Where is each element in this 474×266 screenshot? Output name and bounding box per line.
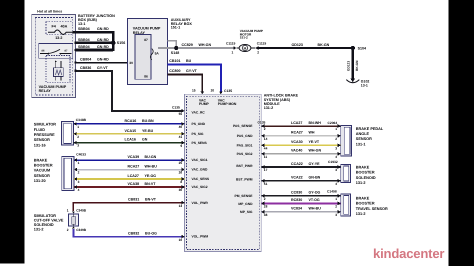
svg-text:9: 9	[180, 144, 182, 148]
svg-text:131-2: 131-2	[356, 212, 366, 216]
svg-text:10: 10	[179, 238, 183, 242]
svg-text:S104: S104	[358, 46, 366, 50]
svg-text:GY-VT: GY-VT	[97, 66, 109, 70]
svg-text:BU-OG: BU-OG	[145, 231, 157, 235]
svg-text:PAS_SIG1: PAS_SIG1	[237, 144, 253, 148]
svg-text:PUMP MON: PUMP MON	[218, 102, 237, 106]
svg-text:RCA27: RCA27	[128, 165, 140, 169]
svg-text:13: 13	[179, 204, 183, 208]
ABS module outer	[185, 94, 262, 251]
vacuum pump motor M	[236, 45, 255, 52]
vacuum pump relay box (aux)	[127, 19, 167, 85]
svg-text:BRAKE: BRAKE	[34, 158, 48, 162]
svg-text:SENSOR: SENSOR	[34, 174, 50, 178]
svg-text:C1119: C1119	[226, 42, 236, 46]
svg-text:PAS_SIG2: PAS_SIG2	[237, 152, 253, 156]
svg-text:C349B: C349B	[76, 209, 87, 213]
wire SBB04 GN-RD (fuse output)	[73, 31, 114, 34]
svg-text:SIMULATOR: SIMULATOR	[34, 123, 56, 127]
svg-text:BK-GN: BK-GN	[318, 43, 330, 47]
connector C1119 pin 2	[255, 46, 258, 50]
svg-text:RCA27: RCA27	[291, 131, 303, 135]
simulator fluid pressure sensor label	[34, 123, 56, 148]
label VACUUM PUMP RELAY (BJB)	[39, 85, 67, 93]
svg-text:S148: S148	[171, 51, 179, 55]
wire LCA27 YE-OG	[74, 178, 185, 180]
splice S104	[351, 46, 355, 50]
svg-text:ANGLE: ANGLE	[356, 132, 370, 136]
wire CB101 BU	[168, 64, 221, 92]
module header VAC PUMP	[199, 99, 210, 106]
svg-text:2: 2	[335, 204, 337, 208]
svg-text:VT-OG: VT-OG	[309, 198, 320, 202]
svg-text:RELAY: RELAY	[39, 89, 52, 93]
svg-text:C2064: C2064	[328, 121, 338, 125]
svg-text:VCA15: VCA15	[125, 129, 137, 133]
wire vertical bus	[112, 31, 115, 51]
svg-text:TRAVEL SENSOR: TRAVEL SENSOR	[356, 207, 388, 211]
svg-text:4: 4	[78, 188, 80, 192]
svg-text:GD123: GD123	[347, 61, 351, 71]
wire VC834 WH-BU	[261, 211, 340, 213]
svg-text:CB804: CB804	[80, 58, 91, 62]
svg-text:GN-BN: GN-BN	[309, 176, 321, 180]
brake pedal angle sensor label	[356, 127, 384, 147]
svg-text:44: 44	[264, 147, 268, 151]
wire CB832 BU-OG	[73, 229, 184, 237]
svg-text:40A: 40A	[61, 25, 68, 29]
connector C1932	[341, 164, 351, 182]
svg-text:CC829: CC829	[182, 43, 193, 47]
svg-text:86: 86	[144, 75, 148, 79]
svg-text:2: 2	[257, 51, 259, 55]
module header VAC PUMP MON	[218, 99, 237, 106]
svg-text:SBB04: SBB04	[78, 38, 90, 42]
svg-text:GN-RD: GN-RD	[97, 27, 109, 31]
svg-text:VAC40: VAC40	[291, 149, 302, 153]
svg-text:VOL_PWM: VOL_PWM	[192, 234, 209, 238]
svg-text:VOL_PWR: VOL_PWR	[192, 201, 209, 205]
right letterbox bar	[449, 0, 474, 266]
connector C4033 box	[62, 157, 74, 191]
wire VCA30 YE-VT	[261, 144, 340, 146]
svg-text:CB836: CB836	[80, 66, 91, 70]
svg-text:VC834: VC834	[291, 207, 302, 211]
solenoid pin 2	[72, 226, 75, 228]
svg-text:LCA16: LCA16	[125, 138, 136, 142]
svg-text:13-1: 13-1	[361, 83, 368, 87]
svg-text:BOOSTER: BOOSTER	[356, 171, 375, 175]
wire WH-GN elbow from relay 87	[168, 41, 177, 48]
battery junction box outer	[32, 15, 76, 98]
relay coil	[53, 61, 63, 81]
svg-text:PS_SENS: PS_SENS	[192, 141, 208, 145]
svg-text:YE-OG: YE-OG	[145, 174, 157, 178]
svg-text:BN-WH: BN-WH	[309, 121, 322, 125]
svg-text:C135: C135	[172, 106, 180, 110]
svg-text:BRAKE: BRAKE	[356, 165, 370, 169]
svg-text:GN: GN	[142, 138, 148, 142]
svg-text:SENSOR: SENSOR	[34, 138, 50, 142]
wire CB836 GY-VT to module pin 55	[76, 71, 183, 111]
module left pin names	[192, 110, 210, 238]
brake booster vacuum sensor label	[34, 158, 53, 183]
relay inner body	[135, 35, 151, 80]
svg-text:41: 41	[179, 135, 183, 139]
svg-text:C4033: C4033	[76, 153, 86, 157]
svg-text:2: 2	[67, 228, 69, 232]
svg-text:51: 51	[264, 182, 268, 186]
svg-text:30: 30	[129, 61, 133, 65]
svg-text:131-2: 131-2	[356, 181, 366, 185]
svg-text:30: 30	[179, 188, 183, 192]
wire VCA39 BU-GN	[74, 159, 185, 161]
svg-text:GN-RD: GN-RD	[97, 45, 109, 49]
svg-text:1: 1	[232, 51, 234, 55]
BJB edge pin ticks	[75, 42, 77, 44]
connector C1498	[341, 194, 351, 216]
wire RC830 VT-OG	[261, 202, 340, 204]
svg-text:PM_SENSE: PM_SENSE	[235, 194, 254, 198]
svg-text:131-2: 131-2	[264, 106, 273, 110]
svg-text:CB831: CB831	[128, 197, 139, 201]
svg-text:VCA38: VCA38	[128, 182, 140, 186]
svg-text:VACUUM: VACUUM	[34, 169, 50, 173]
svg-text:BOOSTER: BOOSTER	[356, 202, 375, 206]
svg-text:13-1: 13-1	[78, 22, 85, 26]
svg-text:151-2: 151-2	[240, 35, 248, 39]
auxiliary relay box label	[171, 18, 193, 30]
svg-text:WH-BU: WH-BU	[145, 165, 158, 169]
svg-text:5A: 5A	[155, 51, 160, 55]
svg-text:S156: S156	[117, 41, 125, 45]
svg-text:38: 38	[264, 213, 268, 217]
svg-text:C348B: C348B	[76, 118, 87, 122]
svg-text:GY-OG: GY-OG	[309, 191, 321, 195]
vacuum pump motor label	[240, 29, 263, 39]
svg-text:VCA39: VCA39	[128, 155, 140, 159]
wire VCA38 BN-VT	[74, 186, 185, 188]
svg-text:3: 3	[335, 146, 337, 150]
svg-text:C1932: C1932	[328, 160, 338, 164]
svg-text:MP_SIG: MP_SIG	[240, 210, 253, 214]
fuse element	[48, 30, 73, 34]
svg-text:GY-VT: GY-VT	[186, 69, 198, 73]
svg-text:BRAKE: BRAKE	[356, 196, 370, 200]
connector C348B box	[61, 122, 73, 146]
svg-text:BST_PWM: BST_PWM	[236, 178, 253, 182]
left letterbox bar	[0, 0, 25, 266]
svg-text:131-1: 131-1	[356, 142, 366, 146]
connector C1119 pin 1	[233, 46, 236, 50]
circuit breaker 5A	[150, 49, 153, 60]
fuse F4 40A box	[46, 22, 73, 35]
svg-text:3: 3	[335, 213, 337, 217]
connector C2064	[341, 126, 352, 156]
svg-text:BK-GN: BK-GN	[355, 60, 359, 71]
svg-text:2: 2	[78, 171, 80, 175]
svg-text:20: 20	[211, 89, 215, 93]
svg-text:GN-RD: GN-RD	[97, 38, 109, 42]
svg-text:BOOSTER: BOOSTER	[34, 164, 53, 168]
svg-text:VCA22: VCA22	[291, 176, 303, 180]
svg-text:1: 1	[335, 127, 337, 131]
wire RCA27 WH-BU	[74, 169, 185, 171]
ABS module dashed border	[187, 96, 260, 249]
svg-text:1: 1	[78, 161, 80, 165]
svg-text:PAS_SENSE: PAS_SENSE	[233, 124, 253, 128]
ABS module label	[264, 94, 299, 111]
wire SBB04 GN-RD (2)	[76, 41, 114, 44]
wire CC830 GY-OG	[261, 195, 340, 197]
svg-text:131-2: 131-2	[34, 227, 44, 231]
svg-text:GD123: GD123	[292, 43, 303, 47]
wire GD123 BK-GN vertical	[352, 48, 354, 79]
wire VCA15 YE-BU	[74, 133, 185, 135]
relay contact	[40, 49, 72, 54]
splice S156	[111, 41, 116, 46]
svg-text:1: 1	[67, 209, 69, 213]
svg-text:2: 2	[77, 135, 79, 139]
splice S148	[174, 46, 178, 50]
svg-text:WH-BU: WH-BU	[309, 207, 322, 211]
svg-text:BRAKE PEDAL: BRAKE PEDAL	[356, 127, 384, 131]
wire LCA16 GN	[74, 142, 185, 144]
svg-text:131-16: 131-16	[34, 143, 46, 147]
svg-text:RC830: RC830	[291, 198, 302, 202]
svg-text:SBB04: SBB04	[78, 27, 90, 31]
svg-text:87: 87	[144, 38, 148, 42]
svg-text:BU-BN: BU-BN	[142, 119, 154, 123]
wire CC800 GY-VT	[168, 75, 203, 93]
svg-text:SOLENOID: SOLENOID	[34, 223, 54, 227]
svg-text:C135: C135	[258, 120, 266, 124]
svg-text:VAC_SIG2: VAC_SIG2	[192, 185, 208, 189]
wire CB831 BN-VT	[73, 203, 184, 211]
svg-text:15: 15	[192, 89, 196, 93]
svg-text:3: 3	[77, 144, 79, 148]
svg-text:CCA22: CCA22	[291, 162, 303, 166]
svg-text:28: 28	[264, 205, 268, 209]
wire RCA16 BU-BN	[74, 123, 185, 125]
svg-text:SBB04: SBB04	[78, 45, 90, 49]
svg-text:17: 17	[264, 168, 268, 172]
simulator cut-off valve solenoid label	[34, 214, 64, 232]
svg-text:14: 14	[264, 137, 268, 141]
wire VCA22 GN-BN	[261, 180, 340, 182]
svg-text:C1119: C1119	[257, 42, 267, 46]
label BATTERY JUNCTION BOX	[78, 14, 115, 26]
svg-text:CB101: CB101	[169, 59, 180, 63]
svg-text:WH: WH	[309, 131, 315, 135]
svg-text:CUT-OFF VALVE: CUT-OFF VALVE	[34, 218, 64, 222]
relay coil dashed box	[46, 55, 70, 82]
svg-text:GY-YE: GY-YE	[309, 162, 321, 166]
svg-text:YE-VT: YE-VT	[309, 140, 320, 144]
svg-text:LCA27: LCA27	[128, 174, 139, 178]
svg-text:M: M	[244, 46, 247, 50]
brake booster travel sensor label	[356, 196, 388, 216]
svg-text:2: 2	[335, 137, 337, 141]
wire CB804 GN-RD to relay pin 30	[76, 62, 128, 64]
svg-text:11: 11	[264, 155, 268, 159]
svg-text:PS_GND: PS_GND	[192, 122, 206, 126]
svg-text:1: 1	[77, 125, 79, 129]
svg-text:BST_PWR: BST_PWR	[236, 164, 253, 168]
svg-text:SENSOR: SENSOR	[356, 137, 372, 141]
svg-text:4: 4	[335, 155, 337, 159]
svg-text:GN-RD: GN-RD	[97, 58, 109, 62]
wire CCA22 GY-YE	[261, 166, 340, 168]
label VACUUM PUMP RELAY	[133, 27, 161, 35]
vacuum pump relay (BJB) contact box	[39, 43, 73, 58]
svg-text:LCA27: LCA27	[291, 121, 302, 125]
svg-text:Hot at all times: Hot at all times	[37, 9, 62, 13]
svg-text:VAC_GND: VAC_GND	[192, 168, 208, 172]
brake booster solenoid label	[356, 165, 376, 185]
svg-text:C135: C135	[224, 89, 232, 93]
svg-text:WH-GN: WH-GN	[309, 149, 322, 153]
svg-text:MP_GND: MP_GND	[238, 202, 253, 206]
wire GD123 BK-GN	[258, 47, 354, 49]
svg-text:SOLENOID: SOLENOID	[356, 176, 376, 180]
svg-text:BN-VT: BN-VT	[145, 197, 157, 201]
svg-text:VAC_RC: VAC_RC	[192, 110, 206, 114]
svg-text:151-1: 151-1	[171, 26, 180, 30]
svg-text:YE-BU: YE-BU	[142, 129, 154, 133]
svg-text:2: 2	[264, 197, 266, 201]
svg-text:8: 8	[180, 180, 182, 184]
svg-text:PAS_GND: PAS_GND	[237, 134, 253, 138]
svg-text:SIMULATOR: SIMULATOR	[34, 214, 56, 218]
svg-text:4: 4	[335, 182, 337, 186]
svg-text:25: 25	[179, 161, 183, 165]
svg-text:RCA16: RCA16	[125, 119, 137, 123]
solenoid body	[68, 214, 78, 226]
battery junction box dashed border	[35, 17, 72, 95]
wire VAC40 WH-GN	[261, 153, 340, 155]
svg-text:PUMP: PUMP	[199, 102, 210, 106]
wire CC829 WH-GN	[158, 47, 233, 49]
svg-text:13-2: 13-2	[55, 36, 62, 40]
ground G102	[346, 78, 359, 82]
svg-text:55: 55	[179, 112, 183, 116]
svg-text:BN-VT: BN-VT	[145, 182, 157, 186]
svg-text:BU-GN: BU-GN	[145, 155, 157, 159]
svg-text:1: 1	[335, 197, 337, 201]
svg-text:FLUID: FLUID	[34, 128, 45, 132]
svg-text:C1498: C1498	[327, 190, 337, 194]
solenoid pin 1	[72, 211, 75, 213]
svg-text:VCA30: VCA30	[291, 140, 303, 144]
wire LCA27 BN-WH	[261, 125, 340, 127]
svg-text:kindacenter: kindacenter	[373, 246, 444, 261]
wire SBB04 GN-RD (3)	[76, 49, 114, 52]
svg-text:26: 26	[179, 171, 183, 175]
svg-text:CC800: CC800	[169, 69, 180, 73]
svg-text:40: 40	[179, 125, 183, 129]
svg-text:BU: BU	[186, 59, 192, 63]
svg-text:PS_SIG: PS_SIG	[192, 132, 204, 136]
module right pin names	[233, 124, 253, 214]
svg-text:3: 3	[78, 180, 80, 184]
svg-text:PRESSURE: PRESSURE	[34, 133, 55, 137]
svg-text:VAC_SENS: VAC_SENS	[192, 177, 210, 181]
svg-text:CB832: CB832	[128, 231, 139, 235]
svg-text:CC830: CC830	[291, 191, 302, 195]
svg-text:2: 2	[264, 127, 266, 131]
svg-text:3: 3	[335, 168, 337, 172]
svg-text:VAC_SIG1: VAC_SIG1	[192, 158, 208, 162]
svg-text:WH-GN: WH-GN	[199, 43, 212, 47]
svg-text:131-20: 131-20	[34, 179, 46, 183]
module pin 55 arrow	[182, 109, 185, 113]
wire RCA27 WH	[261, 135, 340, 137]
svg-text:C349B: C349B	[76, 228, 87, 232]
